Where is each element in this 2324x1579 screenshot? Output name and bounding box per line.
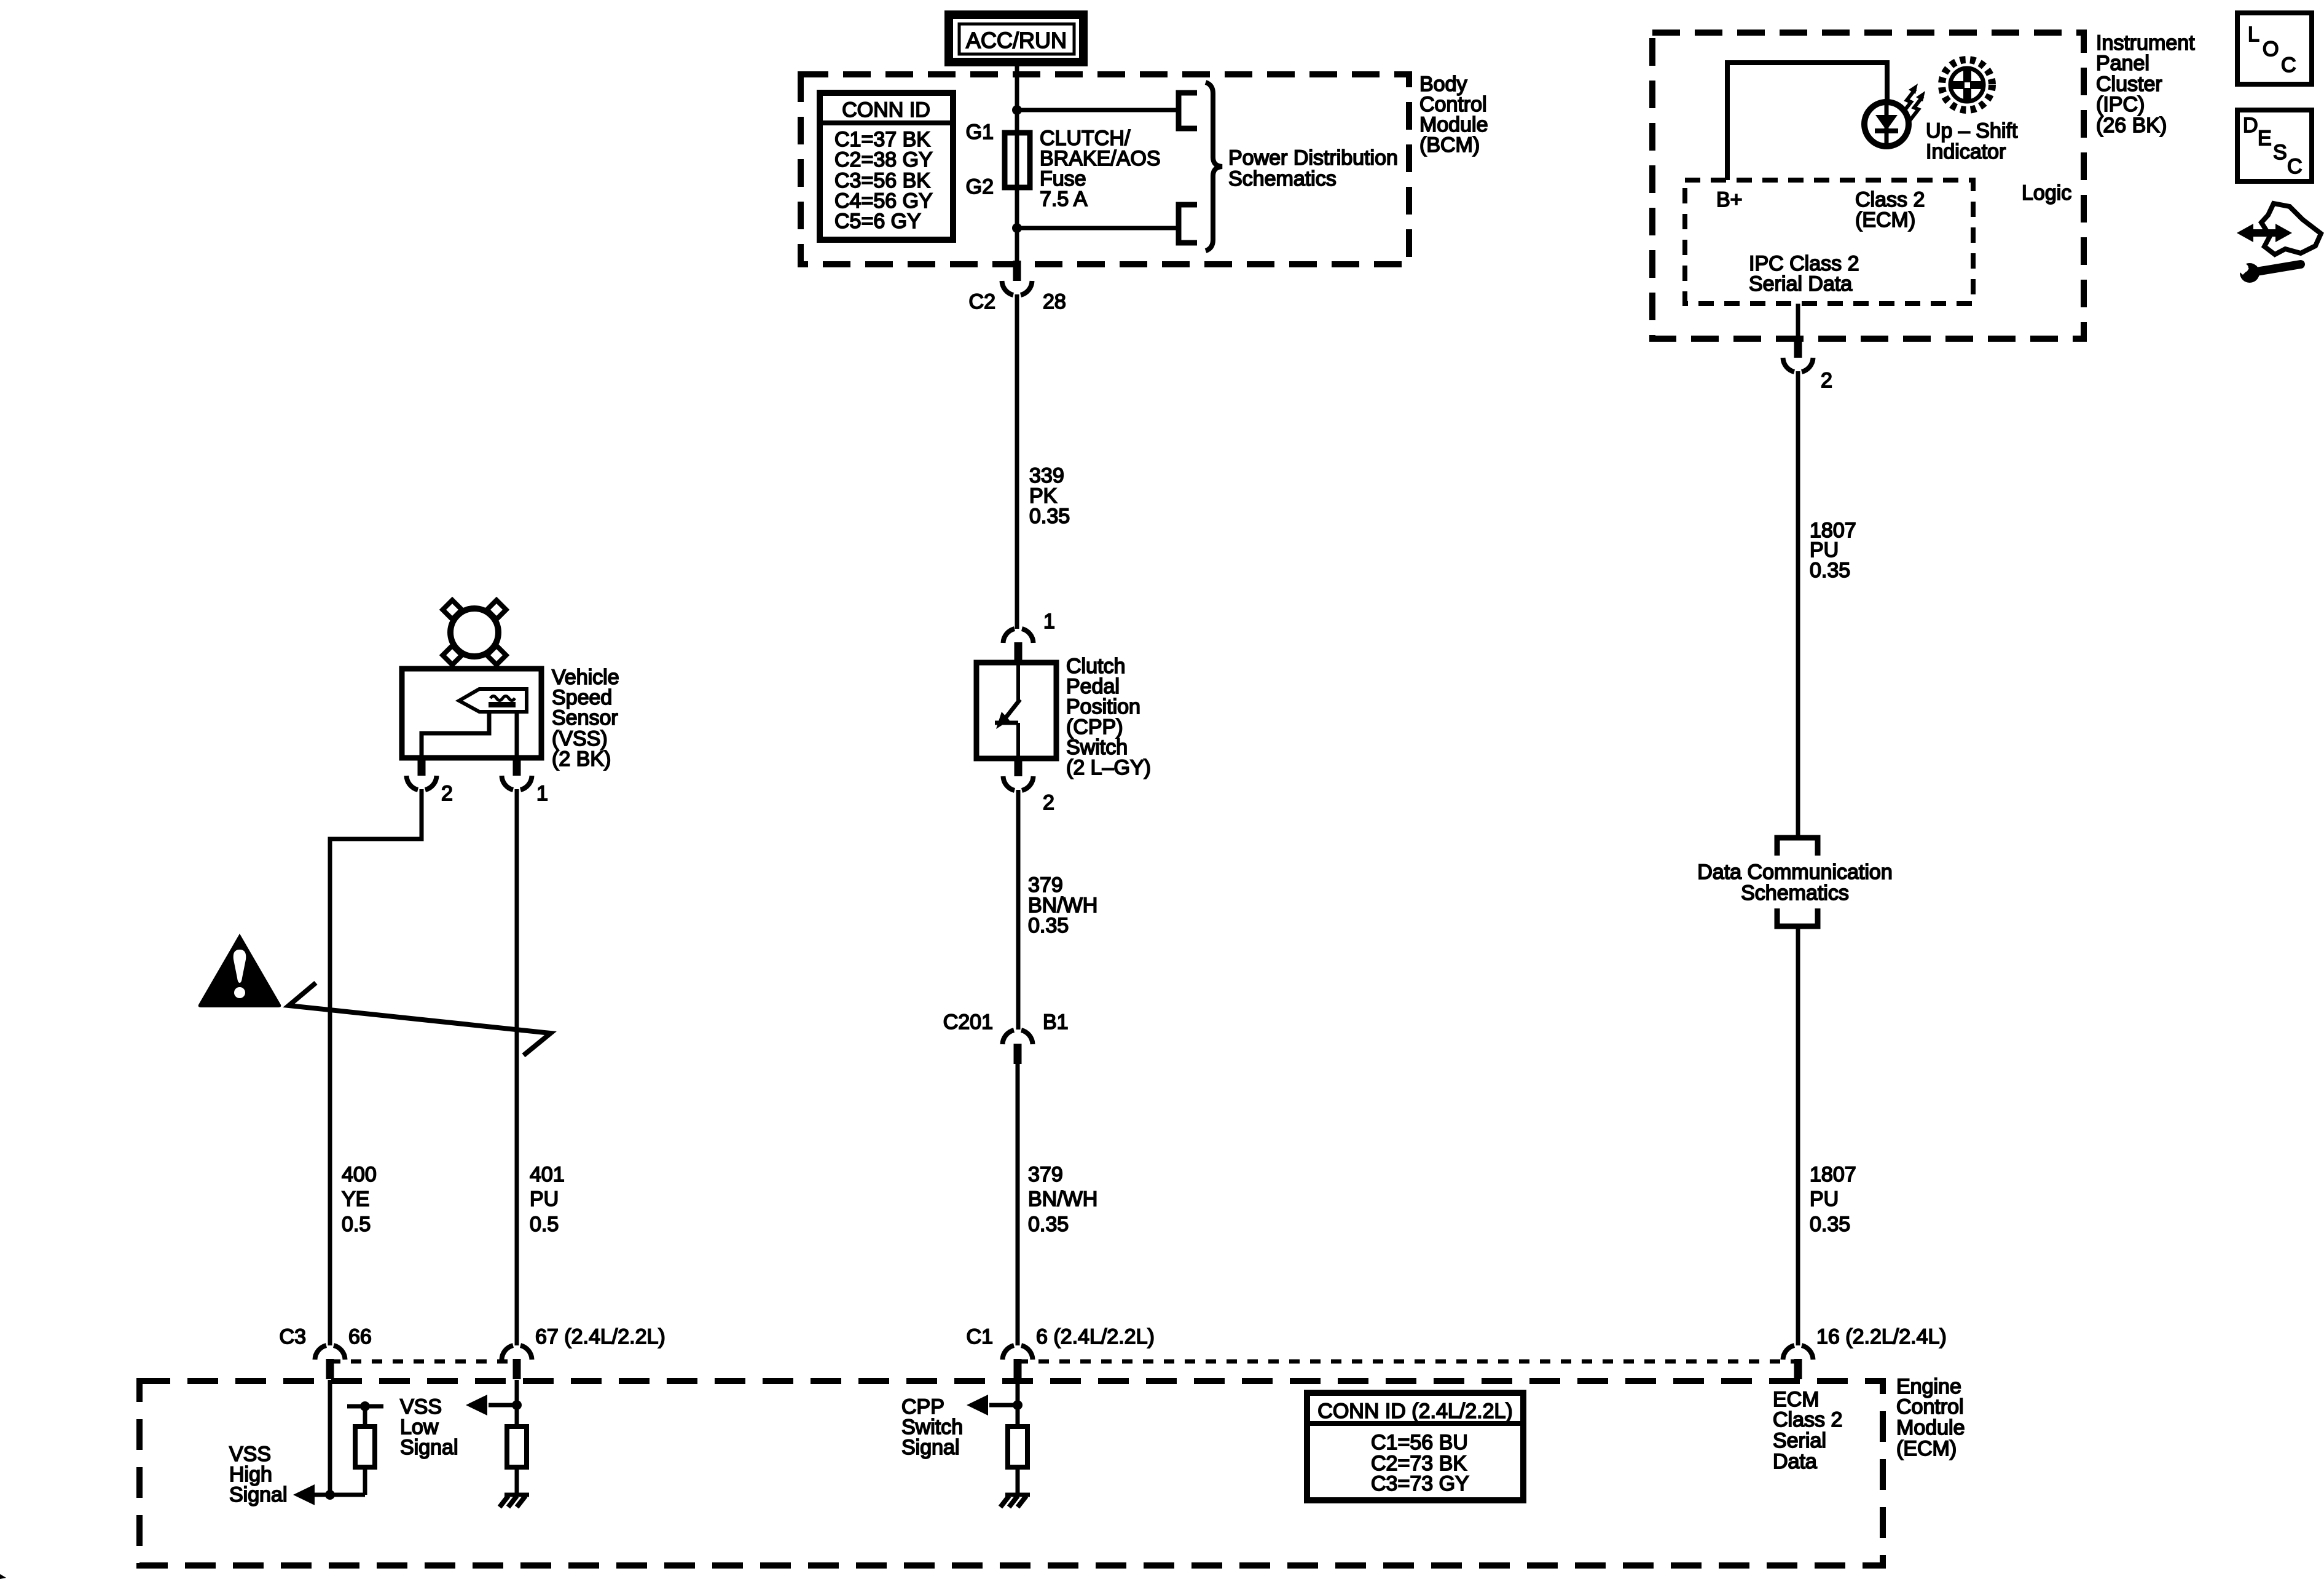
svg-text:YE: YE (342, 1187, 369, 1211)
svg-text:2: 2 (441, 782, 453, 805)
VSS gear icon (442, 600, 506, 664)
inline connector dotted line (left) (330, 1360, 517, 1364)
connector IPC pin 2 (1783, 337, 1813, 372)
svg-text:16 (2.2L/2.4L): 16 (2.2L/2.4L) (1816, 1325, 1947, 1349)
wire to CPP arrow (989, 1403, 1018, 1408)
svg-text:C5=6 GY: C5=6 GY (834, 210, 921, 233)
svg-text:G2: G2 (966, 175, 994, 199)
svg-text:6 (2.4L/2.2L): 6 (2.4L/2.2L) (1036, 1325, 1155, 1349)
label VSS Low Signal (400, 1395, 458, 1459)
label VSS High Signal (229, 1443, 288, 1506)
junction VSS low (512, 1400, 522, 1410)
svg-text:0.35: 0.35 (1028, 914, 1069, 937)
wire to VSS low arrow (489, 1403, 517, 1408)
svg-text:PU: PU (1810, 1187, 1839, 1211)
label Body Control Module (BCM) (1419, 73, 1488, 157)
connector CPP pin 2 (1003, 756, 1034, 790)
svg-text:G1: G1 (966, 120, 994, 144)
svg-text:66: 66 (348, 1325, 372, 1349)
connector ECM pin 16 (1783, 1345, 1813, 1379)
warning triangle (198, 934, 281, 1007)
wire VSS low inside ECM (515, 1380, 519, 1427)
wire 339 PK (1015, 294, 1019, 629)
svg-text:Indicator: Indicator (1926, 140, 2006, 163)
ground CPP (1000, 1495, 1030, 1507)
svg-text:1807: 1807 (1810, 1163, 1856, 1186)
svg-text:7.5 A: 7.5 A (1040, 187, 1088, 211)
connector VSS pin 1 (502, 755, 532, 790)
service info arrow-wrench icon (2234, 203, 2321, 283)
wire 1807 PU lower (1796, 929, 1800, 1345)
ground VSS low (500, 1495, 529, 1507)
svg-text:Data Communication: Data Communication (1697, 860, 1892, 884)
junction node G1 feed (1012, 105, 1022, 115)
svg-text:379: 379 (1028, 1163, 1063, 1186)
IPC logic dashed box (1685, 180, 1973, 304)
svg-text:ACC/RUN: ACC/RUN (966, 28, 1067, 53)
svg-text:1: 1 (1043, 610, 1055, 633)
svg-text:Schematics: Schematics (1228, 167, 1337, 191)
junction node G2 feed (1012, 223, 1022, 233)
svg-text:C3=73 GY: C3=73 GY (1371, 1472, 1469, 1495)
svg-text:0.35: 0.35 (1810, 559, 1850, 582)
up-shift indicator LED (1864, 102, 1909, 146)
svg-text:Up – Shift: Up – Shift (1926, 119, 2018, 143)
gear warning icon (1942, 60, 1992, 110)
svg-text:C201: C201 (943, 1010, 993, 1034)
svg-text:C: C (2281, 53, 2296, 77)
wire to power distribution (bottom) (1017, 226, 1179, 230)
connector C3 pin 66 (315, 1345, 345, 1379)
svg-text:0.5: 0.5 (342, 1213, 371, 1236)
svg-text:(26 BK): (26 BK) (2096, 114, 2167, 137)
ECM CONN ID table (1307, 1393, 1523, 1500)
svg-text:67 (2.4L/2.2L): 67 (2.4L/2.2L) (535, 1325, 665, 1349)
svg-text:(ECM): (ECM) (1855, 208, 1915, 232)
resistor VSS high pull (355, 1427, 375, 1467)
DESC reference box (2237, 110, 2312, 181)
svg-text:(BCM): (BCM) (1419, 133, 1480, 157)
svg-text:(IPC): (IPC) (2096, 93, 2145, 116)
svg-text:Control: Control (1896, 1395, 1964, 1419)
off-page bracket (top feed) (1179, 93, 1197, 128)
fuse value label (1040, 127, 1161, 211)
svg-text:Serial Data: Serial Data (1749, 272, 1852, 296)
connector VSS pin 2 (407, 755, 437, 790)
svg-text:2: 2 (1821, 369, 1832, 392)
svg-text:CONN ID: CONN ID (842, 98, 930, 122)
svg-text:B1: B1 (1043, 1010, 1069, 1034)
svg-text:Signal: Signal (901, 1436, 960, 1459)
svg-text:C2: C2 (969, 290, 995, 313)
switch contacts (995, 665, 1020, 757)
label Vehicle Speed Sensor (VSS) (552, 666, 619, 771)
svg-text:E: E (2258, 127, 2272, 150)
svg-text:Signal: Signal (400, 1436, 458, 1459)
svg-text:CONN ID (2.4L/2.2L): CONN ID (2.4L/2.2L) (1317, 1400, 1512, 1423)
svg-text:28: 28 (1043, 290, 1066, 313)
svg-text:1: 1 (536, 782, 548, 805)
LED light rays (1902, 84, 1925, 120)
connector C2 pin 28 (1002, 261, 1032, 295)
svg-text:C1=56 BU: C1=56 BU (1371, 1431, 1468, 1454)
resistor VSS low (507, 1427, 527, 1467)
svg-text:Panel: Panel (2096, 52, 2149, 75)
inline connector dotted line (right) (1018, 1360, 1798, 1364)
junction CPP signal (1013, 1400, 1023, 1410)
svg-text:D: D (2243, 114, 2258, 137)
svg-text:Schematics: Schematics (1741, 881, 1849, 905)
LOC reference box (2237, 13, 2312, 84)
label IPC Class 2 Serial Data (1749, 252, 1859, 296)
wire label 401 PU 0.5 (530, 1163, 565, 1236)
wire resistor leg (363, 1467, 367, 1495)
off-page bracket (bottom feed) (1179, 205, 1197, 243)
svg-text:L: L (2248, 23, 2259, 46)
connector CPP pin 1 (1003, 629, 1034, 663)
off-page bracket to data communication (top) (1777, 838, 1818, 856)
wire label 339 PK 0.35 (1029, 464, 1070, 528)
svg-text:Sensor: Sensor (552, 706, 618, 730)
sensor element (422, 689, 527, 757)
arrow CPP Switch Signal (967, 1395, 988, 1416)
svg-text:400: 400 (342, 1163, 377, 1186)
svg-text:(ECM): (ECM) (1896, 1437, 1957, 1460)
svg-text:BN/WH: BN/WH (1028, 1187, 1097, 1211)
wire to ground (1016, 1467, 1020, 1495)
svg-text:Signal: Signal (229, 1483, 288, 1506)
label CPP Switch Signal (901, 1395, 963, 1459)
wire 379 BN/WH lower (1016, 1064, 1020, 1345)
svg-text:0.35: 0.35 (1810, 1213, 1850, 1236)
arrow VSS Low Signal (466, 1395, 487, 1416)
svg-text:Data: Data (1773, 1450, 1817, 1473)
rail stub (347, 1404, 383, 1409)
wire to VSS high resistor (314, 1493, 365, 1497)
label Data Communication Schematics (1697, 860, 1892, 905)
wire 1807 PU upper (1796, 371, 1800, 836)
wire label 379 BN/WH 0.35 lower (1028, 1163, 1097, 1236)
svg-text:C2=38 GY: C2=38 GY (834, 148, 933, 171)
svg-text:(2 L–GY): (2 L–GY) (1066, 756, 1151, 779)
wire to ground (515, 1467, 519, 1495)
svg-text:401: 401 (530, 1163, 565, 1186)
svg-text:PU: PU (530, 1187, 559, 1211)
wire label 379 BN/WH 0.35 (1028, 873, 1097, 937)
wire 379 BN/WH upper (1016, 790, 1021, 1030)
wire resistor top leg (363, 1406, 367, 1427)
CPP switch box (976, 663, 1056, 758)
scan artifact bottom-left (0, 1574, 6, 1579)
connector C201 pin B1 (1003, 1030, 1033, 1064)
svg-text:S: S (2273, 141, 2287, 164)
svg-text:C: C (2287, 155, 2302, 178)
arrow VSS High Signal (293, 1484, 315, 1505)
aftermarket crossing slash (289, 983, 551, 1055)
label Up-Shift Indicator (1926, 119, 2018, 163)
svg-text:Class 2: Class 2 (1773, 1408, 1842, 1431)
ECM dashed module box (139, 1381, 1883, 1565)
IPC dashed module box (1652, 33, 2084, 339)
wire label 1807 PU 0.35 lower (1810, 1163, 1856, 1236)
svg-text:Power Distribution: Power Distribution (1228, 146, 1398, 170)
label Clutch Pedal Position (CPP) Switch (1066, 655, 1151, 779)
label Engine Control Module (ECM) (1896, 1375, 1965, 1460)
wire logic to IPC pin 2 (1796, 304, 1800, 339)
ACC/RUN power feed box (949, 15, 1083, 62)
svg-text:0.5: 0.5 (530, 1213, 559, 1236)
connector C1 pin 6 (1003, 1345, 1033, 1379)
svg-text:B+: B+ (1716, 188, 1743, 211)
wire to power distribution (top) (1017, 108, 1179, 112)
svg-text:(2 BK): (2 BK) (552, 747, 611, 771)
label Power Distribution Schematics (1228, 146, 1398, 191)
wire VSS high inside ECM (328, 1380, 332, 1495)
svg-text:C3: C3 (280, 1325, 306, 1349)
wire label 400 YE 0.5 (342, 1163, 377, 1236)
fuse CLUTCH/BRAKE/AOS 7.5A (1005, 133, 1030, 187)
wire 400 YE from pin 2 (330, 789, 422, 1345)
connector pin 67 (502, 1345, 532, 1379)
svg-text:O: O (2263, 37, 2279, 61)
wire to up-shift LED (1885, 60, 1890, 104)
BCM CONN ID table (820, 93, 953, 240)
curly brace to Power Distribution Schematics (1206, 82, 1222, 251)
svg-text:Logic: Logic (2022, 181, 2071, 205)
svg-text:C1: C1 (967, 1325, 993, 1349)
junction VSS high (325, 1490, 335, 1500)
svg-text:Serial: Serial (1773, 1429, 1826, 1452)
resistor CPP pull (1008, 1427, 1027, 1467)
svg-text:0.35: 0.35 (1028, 1213, 1069, 1236)
junction resistor rail (360, 1401, 370, 1411)
wire CPP inside ECM (1016, 1380, 1020, 1427)
svg-text:Module: Module (1896, 1416, 1965, 1439)
VSS sensor box (402, 669, 541, 758)
wire ACC/RUN feed down to fuse and C2 (1015, 62, 1019, 261)
label ECM Class 2 Serial Data (1773, 1388, 1842, 1473)
label Instrument Panel Cluster (IPC) (2096, 31, 2195, 137)
wire 401 PU from pin 1 (515, 789, 519, 1345)
wire IPC internal top (1727, 60, 1887, 65)
label Class 2 (ECM) (1855, 188, 1925, 232)
off-page bracket to data communication (bottom) (1777, 908, 1818, 926)
svg-text:0.35: 0.35 (1029, 505, 1070, 528)
svg-text:2: 2 (1043, 791, 1054, 814)
wire B+ drop (1725, 60, 1730, 180)
wire label 1807 PU 0.35 (1810, 519, 1856, 582)
BCM dashed module box (801, 74, 1409, 264)
